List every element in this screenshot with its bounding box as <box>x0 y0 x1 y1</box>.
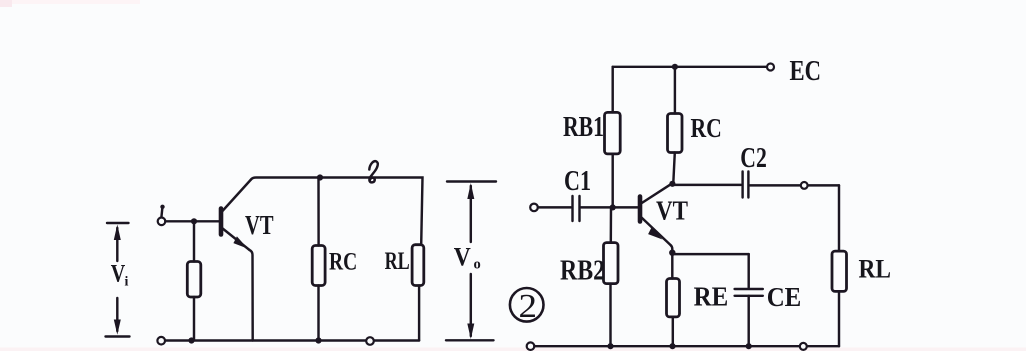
svg-text:RE: RE <box>694 281 729 311</box>
svg-text:EC: EC <box>790 56 822 87</box>
svg-text:RL: RL <box>859 255 892 284</box>
svg-text:RC: RC <box>691 113 722 143</box>
svg-text:CE: CE <box>767 282 802 312</box>
svg-text:2: 2 <box>519 288 538 325</box>
svg-text:VT: VT <box>656 194 688 225</box>
svg-text:V: V <box>111 260 126 287</box>
svg-text:C1: C1 <box>564 166 591 197</box>
svg-text:RC: RC <box>329 249 357 276</box>
svg-text:RB2: RB2 <box>560 255 605 287</box>
svg-text:V: V <box>454 243 471 272</box>
svg-text:VT: VT <box>245 209 274 240</box>
svg-text:RL: RL <box>385 248 410 275</box>
svg-text:i: i <box>125 275 129 290</box>
svg-text:C2: C2 <box>740 142 767 174</box>
svg-text:o: o <box>474 257 481 273</box>
svg-text:RB1: RB1 <box>563 112 604 143</box>
